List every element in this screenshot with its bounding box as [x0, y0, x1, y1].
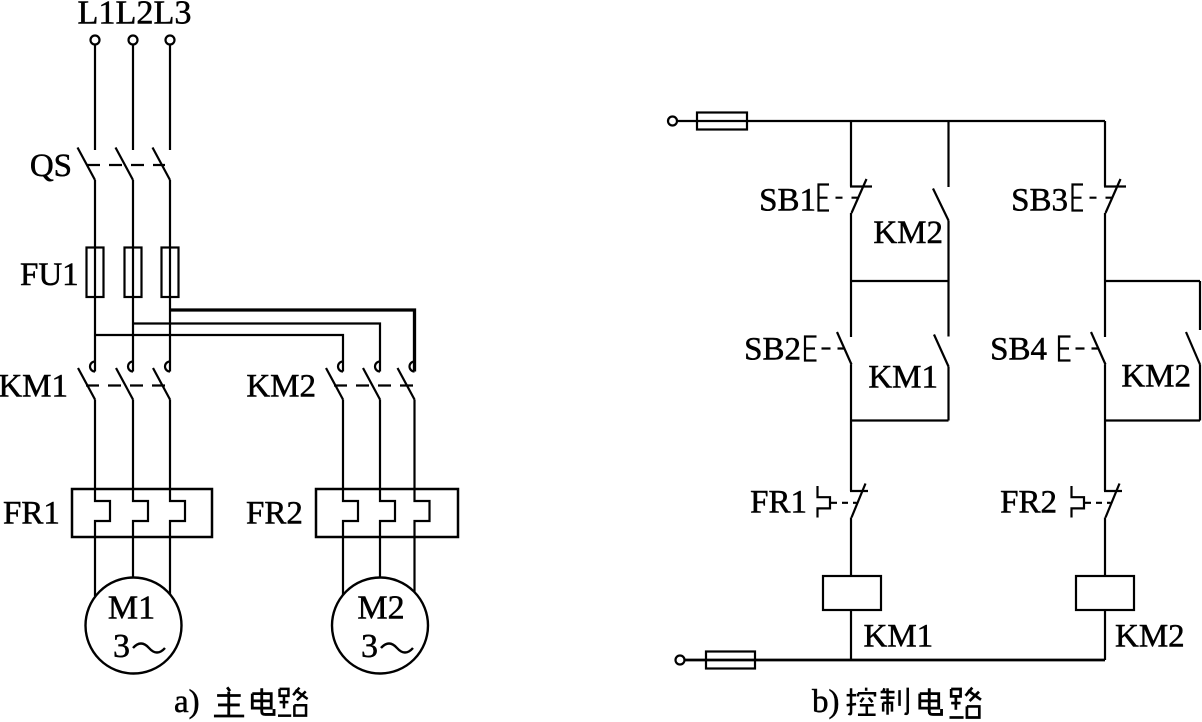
svg-text:SB3: SB3 — [1011, 183, 1068, 219]
button SB2 actuator — [805, 337, 817, 361]
contactor KM2 pole2 arc — [375, 362, 380, 372]
coil KM1 body — [823, 576, 881, 610]
contact FR1 NC contact — [850, 490, 868, 492]
relay FR1 heater3 with wire — [170, 400, 185, 597]
relay FR1 box — [72, 489, 212, 537]
svg-text:L3: L3 — [154, 0, 192, 32]
node C junction wire — [1105, 280, 1200, 282]
button SB4 actuator link dashed — [1076, 347, 1099, 349]
contact KM2 selfhold blade — [1186, 332, 1200, 365]
svg-text:M1: M1 — [108, 590, 155, 627]
wire FU1 to KM1 pole3 — [169, 297, 171, 372]
wire L2 to QS — [132, 45, 134, 151]
svg-text:b): b) — [812, 684, 840, 720]
contactor KM1 pole1 blade — [78, 368, 95, 400]
wire coil KM1 to bottom rail — [850, 610, 852, 660]
control bottom rail wire — [755, 659, 1105, 662]
contactor KM2 pole3 arc — [410, 362, 415, 372]
relay FR2 heater3 with wire — [415, 400, 430, 597]
relay FR2 heater1 with wire — [343, 400, 358, 597]
button SB3 NC contact — [1104, 185, 1126, 187]
svg-text:L1: L1 — [78, 0, 116, 32]
svg-text:KM1: KM1 — [868, 360, 938, 396]
svg-text:SB2: SB2 — [744, 332, 801, 368]
relay FR1 heater1 with wire — [95, 400, 110, 597]
wire L1 to QS — [94, 45, 96, 151]
control bottom terminal — [676, 656, 685, 665]
wire FR2 to coil KM2 — [1104, 518, 1106, 577]
contactor KM1 pole2 arc — [128, 362, 133, 372]
wire node D to FR2 contact — [1104, 421, 1106, 492]
node A junction wire — [851, 280, 949, 282]
fuse FU1 pole2 wire — [132, 248, 134, 298]
contactor KM1 pole2 blade — [116, 368, 133, 400]
svg-text:KM2: KM2 — [246, 369, 316, 405]
relay FR2 box — [316, 489, 458, 537]
svg-text:KM1: KM1 — [864, 619, 934, 655]
svg-text:FR2: FR2 — [246, 496, 303, 532]
button SB1 actuator — [819, 185, 830, 211]
contact KM2 aux blade — [933, 189, 949, 221]
svg-text:FU1: FU1 — [20, 257, 79, 293]
svg-text:L2: L2 — [116, 0, 154, 32]
wire node A to SB2 — [850, 281, 852, 337]
wire QS to FU1 pole3 — [169, 180, 171, 248]
button SB4 actuator — [1059, 337, 1071, 361]
button SB2 NO blade — [837, 332, 852, 365]
wire bottom terminal to fuse — [685, 659, 756, 662]
svg-text:SB1: SB1 — [759, 183, 816, 219]
control top rail wire — [747, 120, 1105, 122]
wire branch L3 to KM2 pole3 — [170, 310, 415, 372]
wire KM1 aux to node B — [947, 367, 949, 421]
svg-text:KM2: KM2 — [873, 215, 943, 251]
fuse FU1 pole2 body — [125, 248, 142, 298]
motor M1 circle — [86, 578, 182, 674]
wire node C to KM2 selfhold — [1199, 281, 1201, 330]
svg-text:FR1: FR1 — [750, 485, 807, 521]
wire rail to SB3 — [1104, 121, 1106, 187]
wire L3 to QS — [169, 45, 171, 151]
wire FR1 to coil KM1 — [850, 518, 852, 577]
wire SB4 to node D — [1104, 365, 1106, 421]
button SB1 NC contact — [850, 185, 872, 187]
contact FR1 actuator — [818, 486, 831, 518]
control bottom fuse body — [706, 652, 755, 669]
contactor KM1 linkage dashed — [86, 384, 165, 386]
node D junction wire — [1105, 419, 1200, 421]
wire terminal to fuse — [677, 120, 747, 122]
contact FR2 NC contact — [1104, 490, 1122, 492]
relay FR2 heater2 with wire — [380, 400, 395, 579]
wire SB2 to node B — [850, 365, 852, 421]
terminal L2 — [129, 36, 138, 45]
terminal L3 — [166, 36, 175, 45]
wire node C to SB4 — [1104, 281, 1106, 337]
contact FR1 link dashed — [831, 502, 857, 504]
motor M2 circle — [332, 578, 428, 674]
wire node B to FR1 contact — [850, 421, 852, 492]
wire SB3 to node C — [1104, 213, 1106, 281]
contactor KM2 pole3 blade — [398, 368, 415, 400]
button SB4 NO blade — [1091, 332, 1106, 365]
wire KM2 aux to node A — [947, 221, 949, 282]
terminal L1 — [91, 36, 100, 45]
svg-text:FR2: FR2 — [1000, 485, 1057, 521]
node B junction wire — [851, 419, 949, 421]
svg-text:a): a) — [174, 684, 200, 720]
button SB3 actuator link dashed — [1090, 197, 1112, 199]
fuse FU1 pole3 wire — [169, 248, 171, 298]
switch QS linkage dashed — [87, 164, 165, 166]
caption a) chinese 主电路 — [214, 687, 308, 716]
button SB2 actuator link dashed — [822, 347, 845, 349]
wire QS to FU1 pole1 — [94, 180, 96, 248]
svg-text:M2: M2 — [357, 590, 404, 627]
wire coil KM2 to bottom rail — [1104, 610, 1106, 660]
wire SB1 to node A — [850, 213, 852, 281]
wire branch L2 to KM2 pole2 — [133, 324, 380, 372]
contactor KM2 pole1 arc — [338, 362, 343, 372]
wire FU1 to KM1 pole1 — [94, 297, 96, 372]
svg-text:3: 3 — [113, 628, 130, 665]
svg-text:KM2: KM2 — [1121, 359, 1191, 395]
svg-text:KM1: KM1 — [0, 369, 68, 405]
contactor KM2 pole1 blade — [326, 368, 343, 400]
svg-text:QS: QS — [30, 148, 72, 184]
button SB3 actuator — [1073, 185, 1084, 211]
caption b) chinese 控制电路 — [847, 688, 981, 718]
switch QS pole 1 blade — [78, 148, 96, 181]
wire KM2 selfhold to node D — [1199, 365, 1201, 421]
contactor KM1 pole3 arc — [165, 362, 170, 372]
svg-text:SB4: SB4 — [990, 332, 1047, 368]
fuse FU1 pole1 wire — [94, 248, 96, 298]
fuse FU1 pole1 body — [87, 248, 104, 298]
contact FR2 actuator — [1072, 486, 1085, 518]
wire rail to KM2 aux contact — [947, 121, 949, 187]
contact KM1 aux blade — [934, 335, 949, 367]
control top terminal — [668, 117, 677, 126]
switch QS pole 3 blade — [153, 148, 171, 181]
contact FR2 link dashed — [1085, 502, 1111, 504]
contactor KM1 pole1 arc — [90, 362, 95, 372]
fuse FU1 pole3 body — [162, 248, 179, 298]
relay FR1 heater2 with wire — [133, 400, 148, 579]
contactor KM1 pole3 blade — [153, 368, 170, 400]
wire rail to SB1 — [850, 121, 852, 187]
wire node A to KM1 aux — [947, 281, 949, 337]
svg-text:3: 3 — [361, 628, 378, 665]
control top fuse body — [697, 113, 747, 130]
svg-text:FR1: FR1 — [3, 496, 60, 532]
switch QS pole 2 blade — [116, 148, 134, 181]
wire QS to FU1 pole2 — [132, 180, 134, 248]
wire FU1 to KM1 pole2 — [132, 297, 134, 372]
button SB1 actuator link dashed — [836, 197, 858, 199]
svg-text:KM2: KM2 — [1115, 619, 1185, 655]
wire branch L1 to KM2 pole1 — [95, 335, 343, 372]
contactor KM2 pole2 blade — [363, 368, 380, 400]
coil KM2 body — [1076, 576, 1134, 610]
contactor KM2 linkage dashed — [334, 384, 413, 386]
